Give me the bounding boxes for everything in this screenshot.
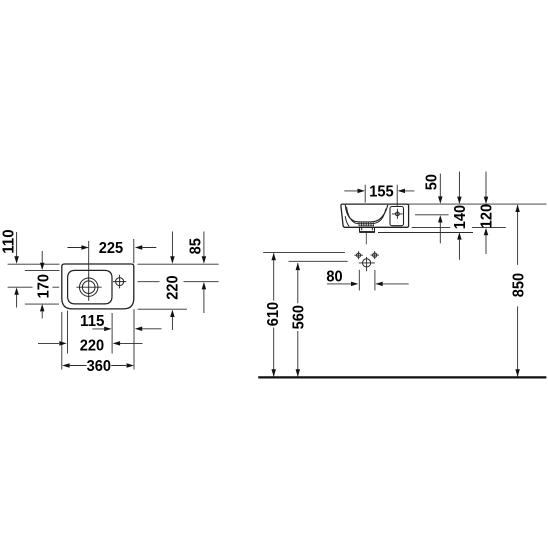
drain tailpiece inner joint lines xyxy=(362,227,373,230)
svg-text:120: 120 xyxy=(479,204,496,228)
svg-text:360: 360 xyxy=(87,358,111,375)
svg-text:560: 560 xyxy=(290,305,307,329)
dim 360 tails xyxy=(70,365,127,367)
rim wedge line (side) xyxy=(345,216,349,226)
arrow 115 right-pointing xyxy=(104,327,111,332)
dim 155 tails xyxy=(344,190,414,192)
arrow 225 left xyxy=(81,245,88,250)
svg-text:610: 610 xyxy=(265,302,282,326)
dim 140 line xyxy=(458,172,460,260)
wall drain hole crosshair xyxy=(359,257,375,271)
dim 110 line xyxy=(16,232,18,308)
basin outer outline (plan) xyxy=(62,264,134,309)
dim 220h tails xyxy=(38,342,143,344)
arrow 170 bottom xyxy=(40,304,45,311)
bowl top extension left xyxy=(25,269,60,271)
basin top extension right xyxy=(138,263,219,265)
svg-text:115: 115 xyxy=(80,313,104,330)
tap hole circle (plan) xyxy=(116,278,124,286)
arrow 85 bottom xyxy=(202,282,207,289)
inner bowl outline (plan) xyxy=(68,270,112,304)
arrow 155 left xyxy=(358,189,365,194)
drain level line xyxy=(289,260,348,262)
svg-text:220: 220 xyxy=(164,275,181,299)
basin bottom extension right xyxy=(412,227,506,229)
svg-text:80: 80 xyxy=(326,269,342,286)
arrow 50 bottom xyxy=(438,215,443,222)
dim 80 tails xyxy=(327,283,409,285)
strainer hatch xyxy=(359,222,375,226)
svg-text:155: 155 xyxy=(369,183,393,200)
arrow 120 bottom xyxy=(484,228,489,235)
arrow 220h right xyxy=(113,341,120,346)
arrow 170 top xyxy=(40,263,45,270)
arrow 220v top xyxy=(170,256,175,263)
ext bowl left down xyxy=(67,311,69,354)
arrow 140 bottom xyxy=(457,232,462,239)
svg-text:85: 85 xyxy=(188,238,205,254)
ext basin right edge up xyxy=(133,239,135,263)
arrow 80 right xyxy=(375,282,382,287)
ext 80 left xyxy=(358,270,360,291)
faucet crosshair (side) xyxy=(392,209,403,219)
arrow 560 top xyxy=(296,263,301,270)
ext bowl right down xyxy=(111,313,113,354)
bowl shell outer curve xyxy=(347,207,386,224)
arrow 110 top xyxy=(14,256,19,263)
arrow 80 left xyxy=(351,282,358,287)
drain crosshair xyxy=(76,273,101,301)
bowl profile inner curve xyxy=(345,205,388,222)
svg-text:110: 110 xyxy=(1,229,18,253)
svg-text:170: 170 xyxy=(35,274,52,298)
dim 560 line xyxy=(297,263,299,377)
mounting hole left crosshair xyxy=(354,251,363,259)
tailpiece bottom flange xyxy=(359,231,375,233)
tap center extension right xyxy=(138,281,219,283)
svg-text:225: 225 xyxy=(99,240,123,257)
drain centerline below xyxy=(365,233,367,245)
ext basin left down xyxy=(61,312,63,370)
floor line xyxy=(258,376,546,378)
ext 155 left xyxy=(364,185,366,203)
arrow 360 left xyxy=(62,363,69,368)
arrow 850 top xyxy=(515,205,520,212)
dim 225 tails xyxy=(67,247,156,249)
faucet hole circle (side) xyxy=(396,212,400,216)
ext 155 right / faucet centerline xyxy=(396,185,398,206)
ext 80 right xyxy=(374,270,376,291)
drain tailpiece outer walls xyxy=(360,227,375,231)
arrowheads left view xyxy=(14,245,206,368)
tap hole crosshair xyxy=(113,275,126,289)
arrow 110 bottom xyxy=(14,287,19,294)
arrow 850 bottom xyxy=(515,369,520,376)
arrow 155 right xyxy=(398,189,405,194)
arrow 225 right xyxy=(135,245,142,250)
wall drain hole circle xyxy=(363,259,371,267)
dim 170 line xyxy=(41,251,43,319)
svg-text:850: 850 xyxy=(511,273,528,297)
basin bottom extension right xyxy=(138,308,187,310)
arrowheads right view xyxy=(271,189,519,377)
dim 610 line xyxy=(273,253,275,376)
drain center extension left xyxy=(8,286,60,288)
dim 50 line xyxy=(439,174,441,244)
arrow 50 top xyxy=(438,196,443,203)
dim 850 line xyxy=(517,205,519,377)
arrow 220h left xyxy=(59,341,66,346)
drain (plan) outer circle xyxy=(80,278,98,296)
drain (plan) inner circle xyxy=(82,281,95,294)
mounting holes level line xyxy=(263,251,345,253)
faucet center extension right xyxy=(415,214,449,216)
arrow 140 top xyxy=(457,197,462,204)
tailpiece bottom extension right xyxy=(378,232,473,234)
basin outer outline (side) xyxy=(341,204,409,227)
tap platform rect (side) xyxy=(390,207,404,226)
bowl bottom extension left xyxy=(25,303,59,305)
ext drain centerline up xyxy=(88,241,90,273)
svg-text:140: 140 xyxy=(452,205,469,229)
mounting hole right crosshair xyxy=(371,251,380,259)
mounting hole right circle xyxy=(373,253,377,257)
arrow 120 top xyxy=(484,197,489,204)
top edge long extension right xyxy=(409,203,547,205)
arrow 360 right xyxy=(127,363,134,368)
basin top edge extension left xyxy=(8,263,60,265)
arrow 85 top xyxy=(202,256,207,263)
arrow 560 bottom xyxy=(296,369,301,376)
arrow 220v bottom xyxy=(170,310,175,317)
mounting hole left circle xyxy=(357,253,361,257)
svg-text:50: 50 xyxy=(424,174,441,190)
dim 220v line xyxy=(171,232,173,331)
arrow 115 left-pointing xyxy=(135,327,142,332)
arrow 610 bottom xyxy=(271,369,276,376)
dim 85 line xyxy=(203,232,205,314)
svg-text:220: 220 xyxy=(80,337,104,354)
dim 120 line xyxy=(485,172,487,255)
ext basin right down xyxy=(133,309,135,369)
arrow 610 top xyxy=(271,253,276,260)
dim 115 tail xyxy=(92,328,161,330)
